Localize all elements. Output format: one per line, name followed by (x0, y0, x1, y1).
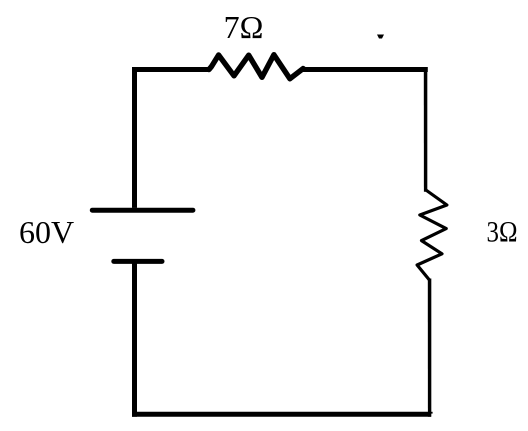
battery V1 positive plate (92, 208, 193, 213)
svg-text:3Ω: 3Ω (487, 216, 518, 249)
wire left vertical upper (132, 67, 137, 208)
wire right vertical lower (428, 279, 432, 417)
svg-text:60V: 60V (19, 214, 74, 250)
resistor R1 7 ohm zigzag (209, 55, 303, 79)
wire top-right horizontal (303, 67, 428, 72)
wire bottom horizontal (132, 412, 431, 417)
wire left vertical lower (132, 263, 137, 417)
battery V1 negative plate (114, 259, 162, 264)
svg-text:7Ω: 7Ω (224, 9, 264, 45)
wire right vertical upper (424, 67, 428, 192)
wire top-left horizontal (132, 67, 209, 72)
resistor R2 3 ohm zigzag (417, 190, 447, 280)
wire bottom-right corner nub (431, 412, 433, 414)
